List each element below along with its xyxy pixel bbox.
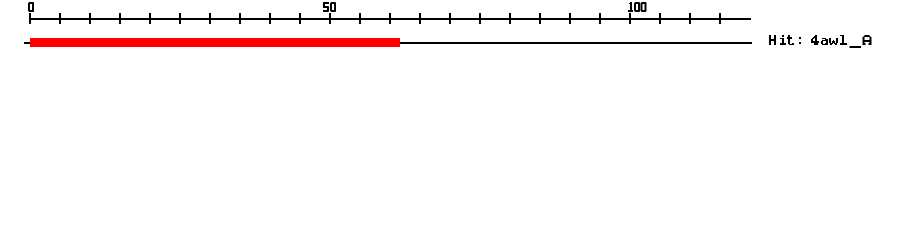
ruler label 100 bbox=[628, 2, 647, 12]
background bbox=[0, 0, 900, 60]
hit baseline wire bbox=[24, 42, 752, 44]
ruler ticks every 5 residues bbox=[29, 13, 721, 24]
hit label text "Hit: 4awl_A" bbox=[769, 35, 872, 48]
hit text glyph A bbox=[863, 35, 872, 45]
hit text glyph l bbox=[840, 35, 847, 45]
hit text glyph a bbox=[821, 38, 828, 45]
red alignment bar bbox=[30, 38, 400, 47]
ruler label 0 bbox=[28, 2, 34, 12]
hit text glyph t bbox=[787, 35, 794, 45]
hit text glyph i bbox=[780, 35, 786, 45]
ruler label 50 bbox=[323, 2, 336, 12]
hit text glyph 4 bbox=[811, 35, 819, 45]
hit text glyph colon bbox=[799, 37, 801, 44]
hit text glyph w bbox=[829, 38, 838, 45]
hit text glyph underscore bbox=[850, 46, 862, 48]
ruler axis line bbox=[29, 18, 751, 20]
hit text glyph H bbox=[769, 35, 776, 45]
